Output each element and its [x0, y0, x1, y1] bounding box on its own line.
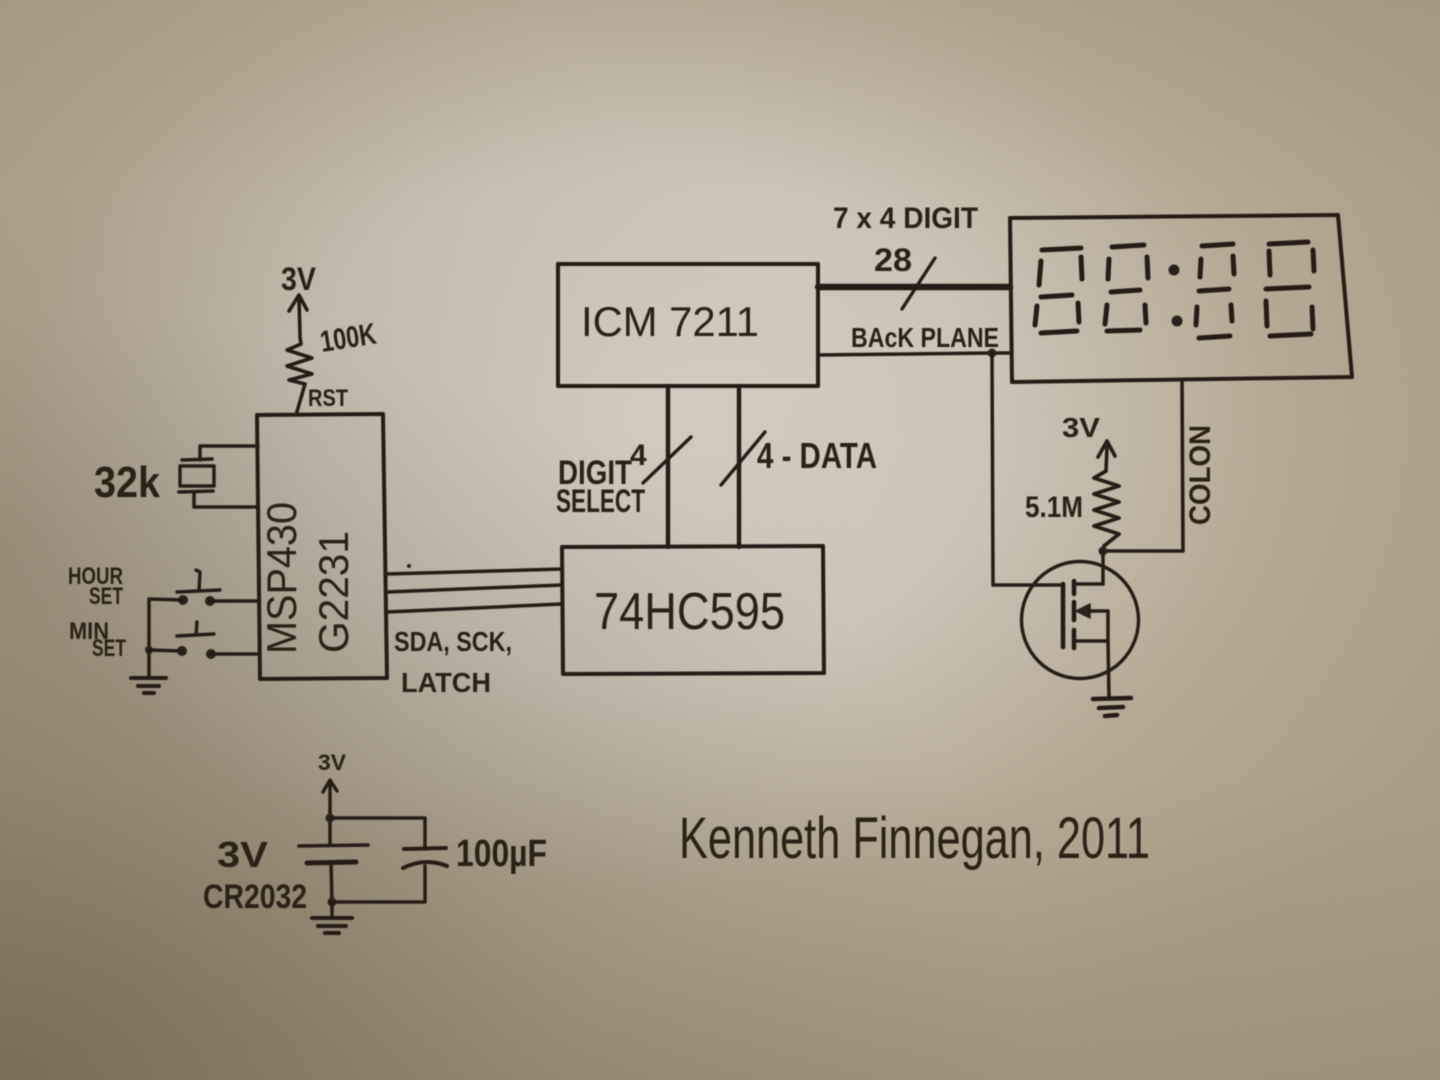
wire RST to U1 — [296, 384, 305, 415]
wire BACK PLANE (U2 to display) — [818, 353, 1011, 355]
wire bus to ground — [147, 650, 151, 677]
wire COLON (display to node) — [1104, 380, 1183, 551]
svg-text:7 x 4 DIGIT: 7 x 4 DIGIT — [833, 202, 978, 235]
svg-text:G2231: G2231 — [310, 531, 357, 653]
svg-text:74HC595: 74HC595 — [594, 583, 785, 641]
microcontroller U1 MSP430G2231 — [257, 414, 387, 679]
bus DIGIT SELECT (U3 to U2) — [666, 386, 670, 547]
wire 3V arrow right — [1098, 441, 1115, 471]
ground GND3 — [312, 918, 352, 933]
svg-text:4 - DATA: 4 - DATA — [757, 435, 877, 476]
wire battery top — [328, 812, 332, 845]
digit 4 segments — [1269, 242, 1308, 244]
resistor R1 100K — [287, 337, 312, 384]
svg-text:32k: 32k — [94, 458, 160, 507]
wire capacitor bottom — [332, 866, 425, 902]
display driver U2 ICM7211 — [558, 264, 818, 386]
svg-text:28: 28 — [874, 242, 912, 278]
bus 28-wide segment bus (U2 to display) — [818, 284, 1010, 290]
junction battery/cap — [326, 814, 335, 823]
wire S2 right to U1 — [211, 652, 257, 656]
bus slash right — [721, 432, 765, 485]
svg-text:RST: RST — [308, 385, 348, 412]
display DS1 7-seg clock — [1010, 215, 1352, 382]
digit 2 segments — [1112, 245, 1144, 247]
capacitor C1 top plate — [404, 848, 446, 849]
svg-text:SELECT: SELECT — [556, 483, 645, 519]
transistor Q1 MOSFET — [1022, 562, 1139, 679]
battery BT1 plate - — [307, 862, 356, 863]
wire SDA (U1 to U3) — [387, 569, 562, 574]
svg-text:Kenneth Finnegan, 2011: Kenneth Finnegan, 2011 — [679, 806, 1150, 871]
MOSFET gate bar — [1061, 584, 1066, 647]
svg-text:SDA, SCK,: SDA, SCK, — [394, 626, 512, 657]
ground GND2 — [1093, 698, 1131, 716]
wire gate from backplane — [992, 353, 1063, 585]
wire S2 left to ground bus — [149, 650, 182, 651]
resistor R2 5.1M — [1094, 471, 1119, 546]
svg-text:MSP430: MSP430 — [258, 502, 305, 654]
svg-text:SET: SET — [89, 583, 123, 610]
wire to ground — [330, 902, 334, 917]
bus 4-DATA (U3 to U2) — [737, 386, 741, 547]
wire LATCH (U1 to U3) — [387, 604, 562, 612]
svg-text:4: 4 — [630, 439, 647, 472]
svg-text:ICM 7211: ICM 7211 — [581, 298, 759, 345]
wire source — [1074, 641, 1109, 698]
junction ground bus — [145, 646, 153, 654]
svg-text:3V: 3V — [318, 750, 346, 775]
wire SCK (U1 to U3) — [387, 585, 562, 592]
bus slash left — [643, 437, 691, 483]
junction backplane node — [988, 349, 997, 358]
wire crystal top to U1 — [200, 446, 258, 460]
ground GND1 — [131, 678, 166, 693]
wire S1 left to ground bus — [149, 599, 183, 650]
wire drain — [1075, 551, 1103, 584]
svg-text:5.1M: 5.1M — [1025, 491, 1083, 524]
digit 1 segments — [1042, 248, 1081, 250]
battery BT1 plate + — [299, 845, 368, 846]
svg-text:3V: 3V — [1062, 412, 1100, 443]
svg-text:BAcK PLANE: BAcK PLANE — [851, 322, 999, 353]
svg-text:SET: SET — [92, 635, 126, 662]
junction battery/cap bottom — [328, 898, 337, 907]
capacitor C1 bottom plate — [403, 862, 447, 868]
stray ink dot — [407, 564, 411, 568]
crystal body — [180, 466, 214, 486]
MOSFET body arrow — [1076, 604, 1090, 618]
crystal top plate — [182, 459, 212, 460]
svg-text:COLON: COLON — [1184, 425, 1217, 525]
wire battery arrow — [323, 780, 337, 812]
bus slash 28 — [902, 258, 935, 309]
wire S1 right to U1 — [210, 599, 257, 603]
MOSFET channel — [1072, 581, 1077, 648]
wire battery bottom — [331, 863, 332, 902]
shift register U3 74HC595 — [562, 546, 824, 674]
digit 3 segments — [1202, 244, 1233, 246]
wire crystal bottom to U1 — [194, 492, 258, 507]
crystal bottom plate — [179, 491, 213, 492]
junction drain node — [1099, 547, 1108, 556]
svg-text:100µF: 100µF — [456, 833, 547, 875]
wire 3V arrow — [289, 295, 307, 336]
wire to capacitor top — [330, 818, 425, 849]
svg-text:3V: 3V — [281, 261, 317, 297]
svg-text:LATCH: LATCH — [401, 667, 491, 698]
svg-text:3V: 3V — [217, 834, 268, 875]
colon dots — [1169, 265, 1180, 276]
svg-text:CR2032: CR2032 — [203, 878, 307, 916]
